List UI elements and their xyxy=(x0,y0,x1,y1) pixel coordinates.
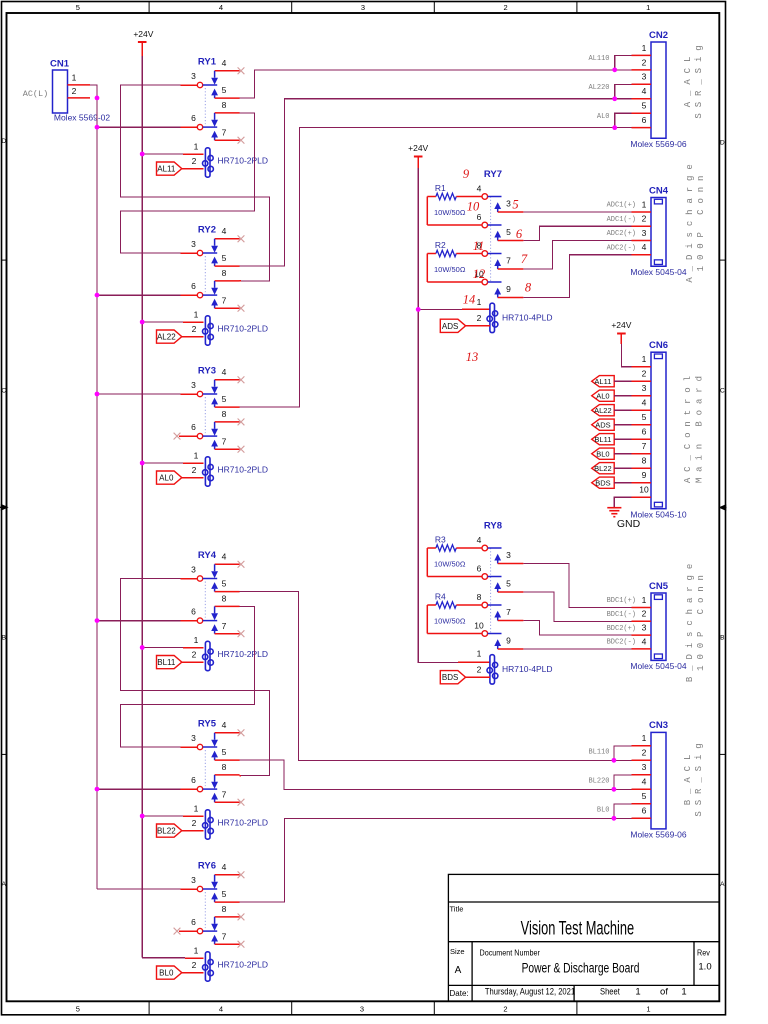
border zone letters left xyxy=(1,138,6,888)
svg-text:4: 4 xyxy=(477,535,482,545)
relay RY2 pole pin 6 xyxy=(191,281,217,298)
junction +24V rail at RY2 xyxy=(140,320,145,325)
junction +24V rail at RY3 xyxy=(140,461,145,466)
svg-text:AL220: AL220 xyxy=(588,84,609,92)
wire AL110 RY1 pin5 to CN2 pin2 xyxy=(240,70,632,98)
svg-text:RY5: RY5 xyxy=(198,719,217,730)
svg-text:7: 7 xyxy=(222,931,227,941)
stub RY3 pin6 xyxy=(179,435,197,437)
svg-text:6: 6 xyxy=(477,212,482,222)
svg-text:BDS: BDS xyxy=(442,673,458,682)
svg-text:10W/50Ω: 10W/50Ω xyxy=(434,559,466,568)
svg-text:A_ACL: A_ACL xyxy=(683,51,693,108)
svg-text:5: 5 xyxy=(76,1005,80,1014)
svg-text:BDC2(-): BDC2(-) xyxy=(607,639,636,647)
svg-text:Vision Test Machine: Vision Test Machine xyxy=(521,918,634,939)
relay RY3 pin 8 (NC contact 2) xyxy=(211,409,239,436)
svg-text:SSR_Sig: SSR_Sig xyxy=(694,39,704,118)
relay RY1 pin 4 (NC contact) xyxy=(211,58,239,85)
svg-text:1.0: 1.0 xyxy=(698,962,711,973)
svg-text:HR710-2PLD: HR710-2PLD xyxy=(218,818,269,828)
annotation red numbers RY7 xyxy=(463,167,532,364)
svg-text:HR710-4PLD: HR710-4PLD xyxy=(502,312,553,322)
svg-text:4: 4 xyxy=(222,551,227,561)
relay RY2 coil pins 1 2 xyxy=(192,309,199,334)
wire +24V to RY7 coil pin1 xyxy=(418,308,462,310)
relay RY1 mechanical link xyxy=(204,88,206,124)
svg-text:1: 1 xyxy=(642,43,647,53)
svg-text:Date:: Date: xyxy=(450,989,469,998)
svg-text:C: C xyxy=(1,388,6,395)
wire BL0 flag to CN6 pin 7 xyxy=(614,453,631,455)
svg-text:4: 4 xyxy=(642,242,647,252)
wire +24V to RY4 coil pin1 xyxy=(142,647,183,649)
svg-text:1: 1 xyxy=(72,73,77,83)
wire +24V to RY3 coil pin1 xyxy=(142,462,183,464)
relay RY3 pin 4 (NC contact) xyxy=(211,367,239,394)
relay RY1 coil xyxy=(203,148,214,177)
svg-text:ADC1(-): ADC1(-) xyxy=(607,216,636,224)
wire CN3 pin5 bridge xyxy=(614,804,632,819)
svg-text:CN6: CN6 xyxy=(649,340,668,351)
svg-text:8: 8 xyxy=(525,281,532,295)
svg-text:7: 7 xyxy=(506,607,511,617)
svg-text:6: 6 xyxy=(477,564,482,574)
svg-text:Molex 5569-06: Molex 5569-06 xyxy=(630,830,687,840)
junction CN2 AL220 xyxy=(612,96,617,101)
border zone letters right xyxy=(720,140,725,889)
svg-text:2: 2 xyxy=(503,1005,507,1014)
svg-text:6: 6 xyxy=(642,806,647,816)
wire AL22 flag to CN6 pin 4 xyxy=(614,409,631,411)
svg-text:7: 7 xyxy=(521,252,528,266)
svg-text:5: 5 xyxy=(222,85,227,95)
svg-text:A: A xyxy=(720,881,725,888)
svg-text:HR710-2PLD: HR710-2PLD xyxy=(218,649,269,659)
relay RY3 pin 5 (NO contact) xyxy=(211,394,239,407)
svg-text:2: 2 xyxy=(192,960,197,970)
title block frame xyxy=(448,874,719,1001)
svg-text:RY2: RY2 xyxy=(198,225,216,236)
svg-text:CN1: CN1 xyxy=(50,59,70,70)
svg-text:HR710-2PLD: HR710-2PLD xyxy=(218,324,269,334)
svg-text:1: 1 xyxy=(194,635,199,645)
svg-text:BDC2(+): BDC2(+) xyxy=(607,625,636,633)
svg-text:3: 3 xyxy=(642,383,647,393)
wire RY7 contact9 to CN4 pin4 xyxy=(523,255,631,298)
svg-text:+24V: +24V xyxy=(611,320,631,330)
svg-text:100P Conn: 100P Conn xyxy=(696,170,706,272)
svg-text:3: 3 xyxy=(191,239,196,249)
svg-text:AC(L): AC(L) xyxy=(23,89,49,99)
relay RY1 pole pin 3 xyxy=(191,71,217,88)
svg-text:2: 2 xyxy=(192,324,197,334)
relay RY5 coil pins 1 2 xyxy=(192,803,199,828)
wire BL22 flag to RY5 coil pin2 xyxy=(182,830,204,832)
wire +24V to RY2 coil pin1 xyxy=(142,321,183,323)
svg-text:1: 1 xyxy=(681,986,686,997)
svg-text:8: 8 xyxy=(222,268,227,278)
relay RY8 contact pin 3 xyxy=(494,550,523,564)
relay RY3 mechanical link xyxy=(204,397,206,433)
relay RY5 pin 5 (NO contact) xyxy=(211,747,239,760)
svg-text:2: 2 xyxy=(477,665,482,675)
wire +24V to CN6 pin1 xyxy=(621,344,631,367)
wire AL0 RY3 pin5 to CN2 pin6 xyxy=(240,128,632,407)
svg-text:Sheet: Sheet xyxy=(600,986,620,997)
wire AL11 flag to RY1 coil pin2 xyxy=(182,168,204,170)
svg-text:4: 4 xyxy=(222,58,227,68)
relay RY1 coil pins 1 2 xyxy=(192,141,199,166)
relay RY7 contact pin 7 xyxy=(494,255,523,269)
svg-text:4: 4 xyxy=(222,226,227,236)
wire CN2 pin1 bridge xyxy=(615,55,632,69)
relay RY4 pole pin 3 xyxy=(191,564,217,581)
svg-text:3: 3 xyxy=(506,198,511,208)
svg-text:ADC1(+): ADC1(+) xyxy=(607,202,636,210)
connector CN6 pin numbers xyxy=(639,354,649,495)
svg-text:13: 13 xyxy=(466,350,479,364)
svg-text:AL22: AL22 xyxy=(157,333,176,342)
svg-text:AL110: AL110 xyxy=(588,55,609,63)
svg-text:BL11: BL11 xyxy=(594,435,611,444)
svg-text:8: 8 xyxy=(222,762,227,772)
relay RY7 contact pin 5 xyxy=(494,227,523,241)
border center arrow left xyxy=(0,504,9,511)
flag BL22 at RY5 coil xyxy=(157,824,182,837)
connector CN2 body xyxy=(651,42,666,138)
relay RY2 pin 8 (NC contact 2) xyxy=(211,268,239,295)
relay RY7 contact pin 3 xyxy=(494,198,523,212)
junction +24V rail at RY4 xyxy=(140,645,145,650)
svg-text:1: 1 xyxy=(194,309,199,319)
relay RY3 pole pin 6 xyxy=(191,422,217,439)
svg-text:6: 6 xyxy=(191,422,196,432)
relay RY5 pin 8 (NC contact 2) xyxy=(211,762,239,789)
relay RY4 pole pin 6 xyxy=(191,606,217,623)
relay RY3 pole pin 3 xyxy=(191,380,217,397)
label AC_Control Main Board xyxy=(683,370,704,483)
svg-text:10: 10 xyxy=(639,485,649,495)
wire BL110 RY4 pin5 to CN3 pin2 xyxy=(240,592,632,761)
connector CN1 pin numbers xyxy=(72,73,77,97)
relay RY4 coil pins 1 2 xyxy=(192,635,199,660)
relay RY4 pin 4 (NC contact) xyxy=(211,551,239,578)
junction +24V RY7 coil xyxy=(416,307,421,312)
wire CN3 pin3 bridge xyxy=(614,775,632,790)
svg-text:6: 6 xyxy=(642,115,647,125)
wire RY1 pin8 to RY2 pin3 xyxy=(120,113,254,253)
svg-text:Molex 5045-04: Molex 5045-04 xyxy=(630,661,687,671)
wire +24V CN6 stem xyxy=(620,334,622,345)
svg-text:AC_Control: AC_Control xyxy=(683,370,693,483)
wire RY8 contact3 to CN5 pin1 xyxy=(523,564,631,608)
flag BL22 at CN6 pin 8 xyxy=(592,463,615,474)
wire +24V left rail xyxy=(141,56,143,958)
relay RY2 pole pin 3 xyxy=(191,239,217,256)
svg-text:CN4: CN4 xyxy=(649,185,669,196)
svg-text:BDC1(-): BDC1(-) xyxy=(607,611,636,619)
resistor R3 xyxy=(427,535,482,577)
relay RY3 coil pins 1 2 xyxy=(192,450,199,475)
wire RY1 pin3 to RY2 pin8 xyxy=(120,85,269,281)
wire CN3 pin1 bridge xyxy=(614,746,632,761)
svg-text:8: 8 xyxy=(222,904,227,914)
svg-text:14: 14 xyxy=(463,293,476,307)
svg-text:2: 2 xyxy=(642,57,647,67)
svg-text:10W/50Ω: 10W/50Ω xyxy=(434,616,466,625)
wire AC bus to RY3 pin3 xyxy=(97,393,180,395)
svg-text:8: 8 xyxy=(222,594,227,604)
svg-text:10: 10 xyxy=(474,621,484,631)
relay RY8 coil xyxy=(487,655,498,684)
wire CN2 pin3 bridge xyxy=(615,84,632,98)
relay RY7 contact pin 9 xyxy=(494,284,523,298)
wire BL0 RY6 pin5 to CN3 pin6 xyxy=(240,818,632,902)
relay RY2 coil xyxy=(203,316,214,345)
svg-text:Thursday, August 12, 2021: Thursday, August 12, 2021 xyxy=(485,986,575,997)
svg-text:HR710-2PLD: HR710-2PLD xyxy=(218,960,269,970)
svg-text:5: 5 xyxy=(506,227,511,237)
wire BDS flag to RY8 coil pin2 xyxy=(466,676,490,678)
relay RY4 mechanical link xyxy=(204,582,206,618)
svg-text:BL22: BL22 xyxy=(157,827,176,836)
wire RY8 contact5 to CN5 pin2 xyxy=(523,592,631,621)
svg-text:5: 5 xyxy=(642,412,647,422)
svg-text:R2: R2 xyxy=(435,240,446,250)
svg-text:1: 1 xyxy=(642,199,647,209)
svg-text:9: 9 xyxy=(463,167,470,181)
svg-text:9: 9 xyxy=(506,635,511,645)
label A_Discharge 100P Conn xyxy=(685,158,706,282)
relay RY5 pole pin 6 xyxy=(191,775,217,792)
relay RY5 pole pin 3 xyxy=(191,733,217,750)
svg-text:1: 1 xyxy=(194,803,199,813)
connector CN3 pin numbers xyxy=(642,733,647,816)
svg-text:12: 12 xyxy=(473,267,486,281)
relay RY8 pole pin 8 xyxy=(477,592,502,608)
flag AL0 at CN6 pin 3 xyxy=(592,390,615,401)
svg-text:1: 1 xyxy=(642,595,647,605)
wire +24V RY7 rail xyxy=(418,168,458,662)
relay RY4 pin 5 (NO contact) xyxy=(211,579,239,592)
wire BL11 flag to RY4 coil pin2 xyxy=(182,661,204,663)
wire AC bus to RY5 pin6 xyxy=(97,788,180,790)
svg-text:4: 4 xyxy=(642,636,647,646)
flag AL11 at CN6 pin 2 xyxy=(592,376,615,387)
svg-text:2: 2 xyxy=(477,313,482,323)
svg-text:5: 5 xyxy=(642,101,647,111)
wire AL220 RY2 pin5 to CN2 pin4 xyxy=(240,99,632,266)
junction CN1 pin2 xyxy=(95,96,100,101)
wire RY7 contact5 to CN4 pin2 xyxy=(523,226,631,240)
relay RY6 pole pin 6 xyxy=(191,917,217,934)
svg-text:A_Discharge: A_Discharge xyxy=(685,158,695,282)
svg-text:2: 2 xyxy=(642,214,647,224)
svg-text:D: D xyxy=(1,138,6,145)
svg-text:HR710-2PLD: HR710-2PLD xyxy=(218,465,269,475)
relay RY8 coil pins 1 2 xyxy=(477,648,482,674)
svg-text:Rev: Rev xyxy=(697,948,710,957)
connector CN4 pin numbers xyxy=(642,199,647,252)
flag AL11 at RY1 coil xyxy=(157,162,182,175)
svg-text:3: 3 xyxy=(361,3,365,12)
svg-text:BL0: BL0 xyxy=(596,450,609,459)
wire +24V RY7 stem xyxy=(417,157,419,169)
svg-text:3: 3 xyxy=(191,875,196,885)
wire +24V left rail stem xyxy=(141,42,143,56)
flag AL22 at CN6 pin 4 xyxy=(592,405,615,416)
svg-text:BL0: BL0 xyxy=(159,969,174,978)
relay RY7 pole pin 4 xyxy=(477,184,502,200)
svg-text:6: 6 xyxy=(191,113,196,123)
svg-text:3: 3 xyxy=(642,623,647,633)
wire RY8 contact7 to CN5 pin3 xyxy=(523,621,631,636)
svg-text:R3: R3 xyxy=(435,535,446,545)
relay RY6 mechanical link xyxy=(204,892,206,928)
svg-text:7: 7 xyxy=(222,295,227,305)
svg-text:10W/50Ω: 10W/50Ω xyxy=(434,208,466,217)
svg-text:1: 1 xyxy=(642,733,647,743)
svg-text:6: 6 xyxy=(191,281,196,291)
svg-text:3: 3 xyxy=(642,762,647,772)
wire AC bus to RY4 pin6 xyxy=(97,620,180,622)
relay RY5 mechanical link xyxy=(204,750,206,786)
svg-text:5: 5 xyxy=(506,578,511,588)
svg-text:3: 3 xyxy=(191,733,196,743)
connector CN6 body xyxy=(651,352,666,509)
wire RY8 contact9 to CN5 pin4 xyxy=(523,648,631,650)
svg-text:B: B xyxy=(720,635,724,642)
wire AC bus to RY6 pin3 xyxy=(97,888,180,890)
relay RY2 pin 5 (NO contact) xyxy=(211,253,239,266)
connector CN5 body xyxy=(651,593,666,660)
label B_ACL SSR_Sig xyxy=(683,737,704,816)
relay RY6 pole pin 3 xyxy=(191,875,217,892)
svg-text:+24V: +24V xyxy=(408,143,428,153)
flag ADS at RY7 coil xyxy=(440,319,465,332)
wire BL22 flag to CN6 pin 8 xyxy=(614,467,631,469)
svg-text:100P Conn: 100P Conn xyxy=(696,569,706,671)
svg-text:6: 6 xyxy=(191,917,196,927)
border center arrow right xyxy=(718,504,726,511)
svg-text:R4: R4 xyxy=(435,592,446,602)
junction CN3 BL110 xyxy=(612,758,617,763)
svg-text:RY3: RY3 xyxy=(198,366,216,377)
wire AL11 flag to CN6 pin 2 xyxy=(614,380,631,382)
svg-text:Title: Title xyxy=(450,905,464,914)
svg-text:AL0: AL0 xyxy=(597,113,610,121)
wire CN6 pin10 to GND xyxy=(614,497,631,508)
relay RY7 coil pins 1 2 xyxy=(477,297,482,323)
relay RY3 coil xyxy=(203,457,214,486)
relay RY8 contact pin 9 xyxy=(494,635,523,649)
svg-text:3: 3 xyxy=(191,71,196,81)
svg-text:4: 4 xyxy=(477,184,482,194)
relay RY1 pin 7 (NO contact 2) xyxy=(211,127,239,140)
svg-text:2: 2 xyxy=(192,156,197,166)
svg-text:1: 1 xyxy=(646,1005,650,1014)
svg-text:6: 6 xyxy=(191,775,196,785)
power +24V CN6 symbol xyxy=(611,320,631,334)
svg-text:2: 2 xyxy=(192,465,197,475)
relay RY7 pole pin 8 xyxy=(477,241,502,257)
svg-text:5: 5 xyxy=(222,579,227,589)
svg-text:B_Discharge: B_Discharge xyxy=(685,558,695,682)
wire +24V to RY5 coil pin1 xyxy=(142,815,183,817)
relay RY6 coil pins 1 2 xyxy=(192,945,199,970)
connector CN4 body xyxy=(651,198,666,267)
svg-text:1: 1 xyxy=(477,297,482,307)
wire AL22 flag to RY2 coil pin2 xyxy=(182,336,204,338)
stub RY6 pin6 xyxy=(179,930,197,932)
border zone ticks left xyxy=(2,260,7,754)
flag AL22 at RY2 coil xyxy=(157,330,182,343)
connector CN3 body xyxy=(651,732,666,829)
svg-text:Molex 5569-06: Molex 5569-06 xyxy=(630,139,687,149)
svg-text:Power & Discharge Board: Power & Discharge Board xyxy=(522,960,640,976)
svg-text:5: 5 xyxy=(512,198,518,212)
wire AC bus to RY2 pin6 xyxy=(97,294,180,296)
relay RY7 mechanical link xyxy=(490,197,492,283)
junction CN2 AL110 xyxy=(612,67,617,72)
svg-text:1: 1 xyxy=(642,354,647,364)
connector CN3 pin stubs xyxy=(632,746,652,819)
svg-text:B_ACL: B_ACL xyxy=(683,749,693,806)
wire BL11 flag to CN6 pin 6 xyxy=(614,438,631,440)
svg-text:ADC2(+): ADC2(+) xyxy=(607,230,636,238)
svg-text:4: 4 xyxy=(219,3,223,12)
svg-text:R1: R1 xyxy=(435,183,446,193)
relay RY4 pin 8 (NC contact 2) xyxy=(211,594,239,621)
svg-text:D: D xyxy=(720,140,725,147)
svg-text:3: 3 xyxy=(642,228,647,238)
svg-text:3: 3 xyxy=(506,550,511,560)
svg-text:1: 1 xyxy=(635,986,640,997)
svg-text:7: 7 xyxy=(222,436,227,446)
flag BDS at RY8 coil xyxy=(440,671,465,684)
svg-text:AL11: AL11 xyxy=(594,377,611,386)
resistor R2 xyxy=(427,240,482,282)
junction AC bus at RY5 xyxy=(95,787,100,792)
svg-text:1: 1 xyxy=(477,648,482,658)
wire AC(L) from CN1 pin1 xyxy=(90,85,97,98)
svg-text:4: 4 xyxy=(642,86,647,96)
label B_Discharge 100P Conn xyxy=(685,558,706,682)
svg-text:8: 8 xyxy=(222,100,227,110)
wire +24V left rail end to RY6 coil xyxy=(142,957,185,959)
relay RY2 mechanical link xyxy=(204,256,206,292)
svg-text:A: A xyxy=(2,881,7,888)
wire CN2 pin5 bridge xyxy=(615,113,632,127)
wire AC(L) bus vertical xyxy=(96,98,98,889)
border zone ticks top xyxy=(149,2,577,14)
svg-text:5: 5 xyxy=(76,3,80,12)
flag BL0 at CN6 pin 7 xyxy=(592,448,615,459)
svg-text:4: 4 xyxy=(222,367,227,377)
svg-text:3: 3 xyxy=(642,72,647,82)
svg-text:HR710-4PLD: HR710-4PLD xyxy=(502,664,553,674)
svg-text:4: 4 xyxy=(642,777,647,787)
title block sheet numbers xyxy=(635,986,686,997)
relay RY8 pole pin 4 xyxy=(477,535,502,551)
connector CN5 pin stubs xyxy=(632,608,652,649)
border zone numbers top xyxy=(76,3,651,12)
svg-text:Document Number: Document Number xyxy=(480,948,541,957)
svg-text:8: 8 xyxy=(222,409,227,419)
svg-text:5: 5 xyxy=(222,253,227,263)
wire BL0 flag to RY6 coil pin2 xyxy=(182,972,204,974)
